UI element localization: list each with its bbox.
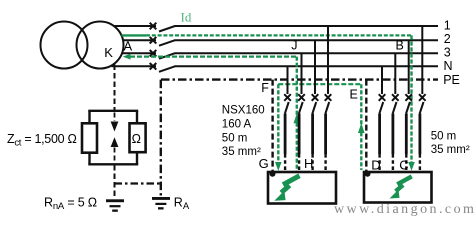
pole 1 wire dashed end [324,154,326,172]
g2 pole 2 contact x [405,94,412,101]
pole 2 contact x [312,94,319,101]
left load frame box [268,172,336,204]
green fault path: return dashed horizontal [130,55,297,57]
transformer T1 (two overlapping circles) [41,22,88,69]
group 2 pole 2 drop [408,40,410,94]
pole 3 contact x [298,94,305,101]
right stub bottom [136,152,138,164]
busbar PE (dash-dot) [161,78,438,80]
lead from PE to earth electrode RA (dash-dot) [160,80,162,196]
pole N contact x [284,94,291,101]
fault bolt in right load [390,176,412,198]
main breaker blade line 3 [159,53,175,59]
ground RA [152,197,170,210]
svg-text:160 A: 160 A [222,119,252,131]
pole 2 wire dashed end [311,154,313,172]
group 1 pole 1 drop [327,26,329,94]
surge limiter dash lower [114,148,116,164]
right stub top [136,111,138,124]
svg-text:E: E [350,88,358,102]
left stub bottom [88,153,90,165]
right load frame box [364,172,432,203]
main breaker pole contact line 2 [150,37,157,44]
svg-text:NSX160: NSX160 [222,105,265,117]
g2 pole N wire [378,114,381,155]
g2 pole 2 blade [406,102,410,114]
g2 pole 1 wire [418,114,421,155]
svg-text:1: 1 [444,19,451,33]
pole 3 wire [298,114,301,155]
green PE return horizontal [278,83,361,85]
svg-text:K: K [104,45,113,60]
svg-text:N: N [444,59,453,73]
svg-text:F: F [261,81,269,95]
busbar 3 (phase 3) [123,52,439,54]
surge limiter dash upper [114,113,116,122]
green fault path: return arrowhead at transformer [123,54,131,60]
surge limiter down arrowhead [111,122,119,132]
junction dot D on right frame [365,171,371,177]
g2 pole 1 contact x [419,94,426,101]
svg-text:RnA = 5 Ω: RnA = 5 Ω [44,196,97,212]
svg-text:PE: PE [443,73,460,87]
impedance Zct box [82,123,97,152]
green fault path: forward dashed horizontal to B drop [146,34,412,36]
circuit breaker group 1 (left, NSX160): pole N drop [287,66,289,94]
svg-text:50 m: 50 m [431,131,457,143]
pole 1 wire [324,114,327,155]
neutral lead from transformer to Zct (dashed) [114,65,116,111]
green fault path: vertical drop at B [410,35,412,162]
g2 pole 1 blade [420,102,424,114]
lead from Zct network to earth electrode RnA (dashed) [114,165,116,197]
IMD ohmmeter box [130,123,146,152]
pole 2 blade [312,102,316,114]
svg-text:3: 3 [444,46,451,60]
pole 1 blade [325,102,329,114]
g2 pole 3 blade [393,102,397,114]
green PE rise from right load [360,84,362,170]
pole N wire dashed end [284,154,286,172]
Zct network top conductor [88,110,138,112]
g2 pole N wire dashed end [378,154,380,172]
g2 pole N contact x [379,94,386,101]
pole 1 contact x [325,94,332,101]
svg-text:G: G [259,156,269,171]
fault bolt in left load [274,176,299,201]
green fault path: forward along phase, solid stub from transformer [122,34,147,36]
busbar N (neutral) [112,65,439,67]
green arrowhead into left load [275,162,282,171]
svg-text:Ω: Ω [132,132,141,146]
green arrowhead into right load [408,162,415,171]
svg-text:D: D [371,157,380,172]
main breaker pole contact line N [150,63,157,70]
green up arrowhead on PE rise [358,123,365,133]
group 2 pole 1 drop [421,26,423,94]
pole 2 wire [311,114,314,155]
svg-text:35 mm²: 35 mm² [431,144,470,156]
g2 pole 2 wire [405,114,408,155]
PE drop to left frame F [271,80,273,171]
pole 3 blade [299,102,303,114]
Zct network bottom conductor [88,163,138,165]
main breaker blade line N [159,66,175,72]
main breaker blade line 1 [159,26,175,32]
ground RnA [106,199,124,212]
main breaker pole contact line 3 [150,50,157,57]
group 1 pole 2 drop [314,40,316,94]
g2 pole 2 wire dashed end [405,154,407,172]
junction dot G on left frame [270,171,276,177]
svg-text:Id: Id [181,10,192,25]
green up arrowhead on return vertical [294,114,301,124]
group 1 pole 3 drop [301,53,303,94]
green PE drop into left load [277,84,279,162]
g2 pole 3 wire [391,114,394,155]
PE drop to right frame E [365,80,367,171]
left stub top [88,111,90,124]
busbar 1 (phase 1) [115,25,439,27]
svg-text:35 mm²: 35 mm² [222,146,261,158]
green fault path: return vertical at J group [296,57,298,172]
main breaker pole contact line 1 [150,23,157,30]
svg-text:C: C [399,157,408,172]
svg-text:50 m: 50 m [222,133,248,145]
g2 pole 3 contact x [392,94,399,101]
g2 pole 1 wire dashed end [419,154,421,172]
pole N blade [285,102,289,114]
group 2 pole 3 drop [394,53,396,94]
svg-text:J: J [291,38,297,52]
busbar 2 (phase 2) [123,39,438,41]
svg-text:H: H [304,156,313,171]
g2 pole N blade [379,102,383,114]
g2 pole 3 wire dashed end [392,154,394,172]
svg-text:www.diangon.com: www.diangon.com [334,202,476,217]
pole N wire [284,114,287,155]
surge limiter up arrowhead [111,137,119,147]
circuit breaker group 2 (right): pole N drop [381,66,383,94]
pole 3 wire dashed end [298,154,300,172]
svg-text:2: 2 [444,32,451,46]
svg-text:B: B [396,39,404,53]
main breaker blade line 2 [159,40,175,46]
earth link between electrodes (dash-dot) [115,182,161,184]
